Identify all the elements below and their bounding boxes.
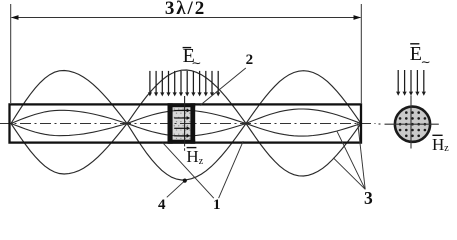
label 4: [158, 197, 166, 214]
leader 3a to node: [358, 122, 366, 190]
standing wave curve B (mirror): [11, 70, 361, 176]
label E~ right: [410, 43, 422, 66]
plunger right bar: [190, 103, 195, 143]
H-field arrows inside plunger: [174, 109, 190, 138]
leader 3b to lens curve: [337, 131, 365, 189]
axis centerline (dash-dot): [0, 123, 439, 126]
dimension extension line left: [10, 4, 12, 103]
standing wave curve A (H distribution): [11, 71, 361, 181]
leader 1b to bottom wall: [219, 141, 244, 198]
dimension arrowhead left: [11, 15, 19, 20]
plunger left bar: [168, 103, 173, 143]
section line through plunger: [184, 96, 186, 144]
label 3: [364, 188, 373, 209]
label E~ left: [183, 45, 195, 68]
leader to label 2: [200, 68, 246, 106]
circular cross-section body: [395, 107, 430, 142]
label 3lambda/2: [146, 0, 226, 20]
dimension line 3lambda/2: [12, 17, 361, 19]
leader to label 4 with dot marker: [167, 181, 184, 197]
vertical section line through circle: [410, 96, 412, 149]
E-field arrows over circle: [396, 70, 426, 96]
overbar of E right: [410, 43, 419, 45]
dimension arrowhead right: [354, 15, 362, 20]
label Hz right: [432, 135, 444, 155]
stipple dots in plunger region: [174, 108, 191, 139]
overbar of E left: [183, 47, 192, 49]
leader 1a to bottom wall: [163, 143, 214, 199]
plunger top bar: [168, 103, 196, 107]
E-field envelope upper lens curves: [11, 109, 361, 124]
label 2: [246, 52, 254, 69]
dimension extension line right: [360, 4, 362, 103]
resonator body rectangle: [10, 104, 362, 142]
cross-section fill of tuning plunger region: [173, 106, 191, 142]
E-field arrows over middle antinode: [148, 71, 221, 97]
plunger bottom bar: [168, 140, 196, 144]
overbar of H right: [432, 134, 442, 136]
stipple dots in circle: [399, 111, 426, 137]
dashed tail below plunger: [184, 144, 186, 152]
E-field envelope lower lens curves: [11, 124, 361, 137]
label Hz left: [186, 147, 198, 167]
leader 3c to wave curve: [333, 158, 365, 190]
overbar of H left: [187, 147, 197, 149]
label 1: [213, 197, 221, 214]
